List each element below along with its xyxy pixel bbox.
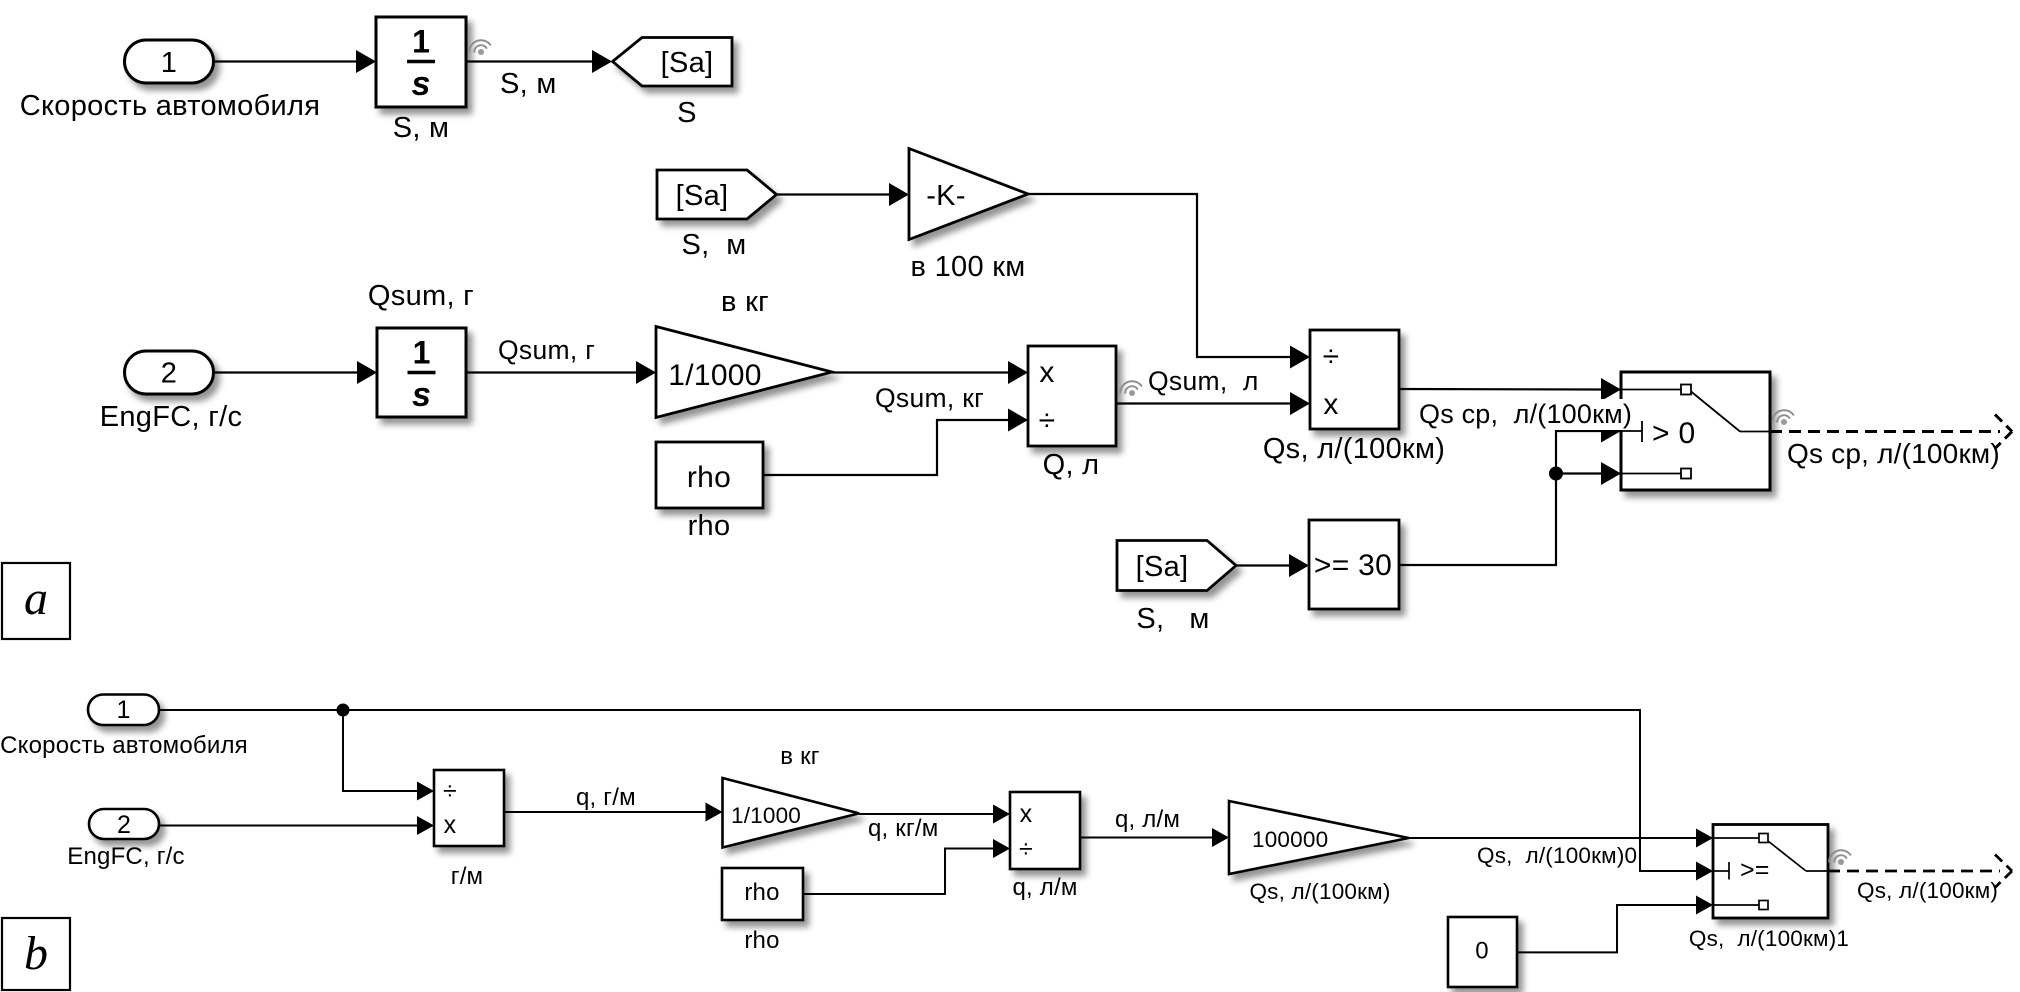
svg-text:Qs ср, л/(100км): Qs ср, л/(100км) bbox=[1787, 438, 2000, 469]
svg-text:2: 2 bbox=[161, 358, 177, 390]
LABELS-B bbox=[0, 696, 1998, 965]
switch b interior: input3 line bbox=[1713, 904, 1759, 906]
wireless badge product a bbox=[1118, 378, 1142, 396]
svg-text:> 0: > 0 bbox=[1652, 417, 1695, 450]
constant 0 bbox=[1448, 917, 1517, 987]
svg-text:Скорость автомобиля: Скорость автомобиля bbox=[20, 90, 320, 122]
svg-text:Q, л: Q, л bbox=[1043, 449, 1100, 481]
inport 2 (diagram b) bbox=[89, 809, 159, 839]
wire gain 100000 to switch input1 bbox=[1409, 837, 1697, 839]
BLOCKS-A bbox=[125, 17, 1771, 609]
wire const 0 to switch input3 bbox=[1517, 905, 1697, 952]
svg-text:>=: >= bbox=[1740, 856, 1770, 884]
switch a interior: output line bbox=[1740, 431, 1770, 433]
svg-text:x: x bbox=[1020, 800, 1033, 828]
svg-text:x: x bbox=[1323, 388, 1338, 421]
switch a interior: control line + tick bbox=[1621, 430, 1642, 432]
product block Q,l bbox=[1028, 346, 1116, 446]
svg-text:÷: ÷ bbox=[1323, 340, 1340, 373]
label frame b bbox=[2, 918, 70, 990]
arrowhead into relop bbox=[1289, 554, 1309, 577]
switch a interior: input1 line bbox=[1621, 389, 1681, 391]
gain -K- (v 100 km) bbox=[909, 149, 1028, 240]
arrowhead into product b input1 bbox=[993, 805, 1010, 824]
constant rho (a) bbox=[656, 442, 763, 508]
arrowhead into integrator2 bbox=[357, 361, 377, 384]
integrator2 fraction bar bbox=[408, 371, 436, 374]
svg-text:rho: rho bbox=[687, 461, 731, 494]
arrowhead into product input1 bbox=[1008, 361, 1028, 384]
wire inport1 to integrator1 bbox=[214, 60, 358, 62]
switch block (a) bbox=[1621, 372, 1770, 490]
wire divide to switch input1 bbox=[1399, 388, 1602, 391]
arrowhead into switch b control bbox=[1696, 862, 1713, 881]
integrator1 fraction bar bbox=[407, 60, 435, 63]
svg-text:÷: ÷ bbox=[443, 777, 457, 805]
switch a interior: port square top bbox=[1681, 385, 1691, 395]
divide block г/м bbox=[434, 770, 504, 846]
divide block Qs bbox=[1310, 330, 1399, 429]
wire relop to switch control bbox=[1399, 431, 1602, 565]
from tag [Sa] bottom bbox=[1117, 541, 1236, 591]
wire product b to gain 100000 bbox=[1080, 837, 1213, 839]
svg-text:1/1000: 1/1000 bbox=[668, 359, 762, 392]
dashed output wire switch b bbox=[1828, 855, 2012, 888]
svg-text:S, м: S, м bbox=[1136, 603, 1209, 635]
inport 1 (diagram b) bbox=[88, 695, 159, 726]
wire inport1 b long run to switch control bbox=[159, 710, 1697, 871]
svg-text:q, л/м: q, л/м bbox=[1012, 874, 1077, 901]
gain 100000 bbox=[1229, 801, 1409, 874]
switch b interior: diagonal bbox=[1768, 841, 1806, 871]
switch b interior: input1 line bbox=[1713, 837, 1759, 839]
from tag [Sa] top bbox=[657, 170, 777, 219]
inport 1 (diagram a) bbox=[125, 40, 214, 83]
arrowhead into switch b input1 bbox=[1696, 829, 1713, 848]
svg-text:x: x bbox=[444, 811, 457, 839]
svg-text:q, кг/м: q, кг/м bbox=[868, 815, 939, 842]
arrowhead into switch a input3 bbox=[1601, 462, 1621, 485]
wire integrator1 to goto [Sa] bbox=[466, 60, 593, 62]
switch a interior: input3 line bbox=[1621, 473, 1681, 475]
svg-text:S, м: S, м bbox=[393, 112, 450, 144]
integrator 1/s (Qsum) bbox=[377, 328, 466, 417]
white bg of overlapping wire label bbox=[1417, 399, 1631, 430]
arrowhead into divide b input2 bbox=[417, 816, 434, 835]
arrowhead into product b input2 bbox=[993, 839, 1010, 858]
switch b interior: port square top bbox=[1759, 834, 1768, 843]
svg-text:Qs, л/(100км)0: Qs, л/(100км)0 bbox=[1477, 843, 1637, 868]
arrowhead into gain -K- bbox=[889, 183, 909, 206]
svg-text:1: 1 bbox=[161, 47, 177, 79]
svg-text:q, г/м: q, г/м bbox=[576, 784, 636, 811]
inport 2 (diagram a) bbox=[125, 351, 214, 394]
wireless badge switch b bbox=[1827, 847, 1851, 865]
svg-text:s: s bbox=[412, 376, 431, 414]
svg-text:г/м: г/м bbox=[451, 863, 484, 890]
wire product to divide input2 bbox=[1116, 402, 1291, 404]
junction dot a bbox=[1549, 467, 1563, 481]
svg-text:b: b bbox=[24, 927, 48, 980]
svg-text:Qsum, г: Qsum, г bbox=[498, 335, 595, 365]
svg-text:Qs ср, л/(100км): Qs ср, л/(100км) bbox=[1419, 399, 1632, 429]
svg-text:Qsum, л: Qsum, л bbox=[1148, 366, 1259, 396]
svg-text:в кг: в кг bbox=[780, 743, 820, 770]
svg-text:[Sa]: [Sa] bbox=[1136, 551, 1189, 583]
svg-text:Qs, л/(100км): Qs, л/(100км) bbox=[1249, 879, 1390, 904]
svg-text:S: S bbox=[677, 97, 697, 129]
WIRES-A bbox=[214, 62, 1603, 566]
svg-text:q, л/м: q, л/м bbox=[1115, 806, 1180, 833]
gain 1/1000 (v kg) bbox=[656, 327, 832, 418]
svg-text:rho: rho bbox=[688, 510, 731, 542]
svg-text:Qs, л/(100км)1: Qs, л/(100км)1 bbox=[1689, 926, 1849, 951]
switch b interior: output line bbox=[1806, 870, 1828, 872]
svg-text:[Sa]: [Sa] bbox=[676, 180, 729, 212]
arrowhead into integrator1 bbox=[356, 50, 376, 73]
arrowhead into gain 100000 bbox=[1212, 828, 1229, 847]
arrowhead into switch a control bbox=[1601, 420, 1621, 443]
svg-text:rho: rho bbox=[744, 879, 779, 906]
gain 1/1000 (b) bbox=[723, 778, 860, 848]
switch a interior: port square bottom bbox=[1681, 469, 1691, 479]
svg-text:100000: 100000 bbox=[1252, 827, 1328, 852]
arrowhead into goto [Sa] bbox=[592, 50, 612, 73]
dashed output wire switch a bbox=[1770, 415, 2012, 449]
arrowhead into switch a input1 bbox=[1601, 378, 1621, 401]
svg-text:x: x bbox=[1039, 356, 1054, 389]
svg-text:S, м: S, м bbox=[500, 68, 557, 100]
svg-text:Qsum, г: Qsum, г bbox=[368, 280, 474, 312]
wire divide b to gain 1/1000 b bbox=[504, 811, 706, 813]
arrowhead into gain 1/1000 b bbox=[706, 803, 723, 822]
wire rho b to product input2 bbox=[803, 849, 994, 895]
svg-text:1: 1 bbox=[412, 24, 430, 60]
arrowhead into divide b input1 bbox=[417, 782, 434, 801]
junction dot b bbox=[337, 704, 350, 717]
svg-text:в кг: в кг bbox=[721, 286, 769, 318]
svg-text:1/1000: 1/1000 bbox=[731, 803, 801, 828]
WIRES-B bbox=[159, 710, 1697, 952]
wire gain 1/1000 to product input1 bbox=[832, 371, 1009, 373]
svg-text:÷: ÷ bbox=[1039, 404, 1056, 437]
svg-text:>= 30: >= 30 bbox=[1314, 549, 1392, 582]
arrowhead into divide input1 bbox=[1290, 346, 1310, 369]
wire integrator2 to gain 1/1000 bbox=[466, 371, 637, 373]
BLOCKS-B bbox=[88, 695, 1828, 988]
svg-text:S, м: S, м bbox=[682, 229, 747, 261]
constant rho (b) bbox=[722, 868, 803, 920]
svg-text:EngFC, г/с: EngFC, г/с bbox=[100, 401, 243, 433]
label frame a bbox=[2, 563, 70, 639]
svg-text:Скорость автомобиля: Скорость автомобиля bbox=[0, 732, 248, 759]
wireless badge switch a bbox=[1770, 407, 1794, 425]
wire rho a to product input2 bbox=[763, 420, 1009, 475]
svg-text:rho: rho bbox=[744, 927, 779, 954]
goto tag [Sa] bbox=[613, 38, 733, 87]
wire branch junction down to divide input1 bbox=[343, 710, 418, 791]
svg-text:Qs, л/(100км): Qs, л/(100км) bbox=[1263, 433, 1445, 465]
svg-text:0: 0 bbox=[1475, 938, 1489, 965]
svg-text:Qsum, кг: Qsum, кг bbox=[875, 383, 984, 413]
arrowhead into divide input2 bbox=[1290, 392, 1310, 415]
svg-text:[Sa]: [Sa] bbox=[661, 47, 714, 79]
svg-text:2: 2 bbox=[117, 811, 131, 839]
wireless badge integrator1 bbox=[467, 37, 491, 55]
svg-text:s: s bbox=[412, 65, 431, 103]
arrowhead into switch b input3 bbox=[1696, 896, 1713, 915]
wire inport2 b to divide input2 bbox=[159, 825, 418, 827]
arrowhead into product input2 bbox=[1008, 409, 1028, 432]
wire from [Sa] bottom to relop bbox=[1236, 564, 1290, 566]
switch a interior: diagonal bbox=[1691, 392, 1740, 432]
svg-text:a: a bbox=[24, 572, 48, 625]
arrowhead into gain 1/1000 bbox=[636, 361, 656, 384]
wire gain b to product input1 bbox=[859, 813, 994, 815]
switch b interior: port square bottom bbox=[1759, 901, 1768, 910]
wire from [Sa] top to gain -K- bbox=[777, 193, 891, 195]
svg-text:-K-: -K- bbox=[926, 180, 966, 212]
wire inport2 to integrator2 bbox=[214, 371, 359, 373]
integrator 1/s (S, m) bbox=[376, 17, 466, 107]
wire branch junction to switch input3 bbox=[1556, 472, 1602, 474]
relational operator >= 30 bbox=[1309, 520, 1399, 609]
svg-text:в 100 км: в 100 км bbox=[911, 251, 1026, 283]
product block q, л/м bbox=[1010, 792, 1080, 869]
svg-text:÷: ÷ bbox=[1019, 835, 1033, 863]
LABELS-A bbox=[20, 47, 2000, 635]
wire gain -K- to divide input1 bbox=[1028, 194, 1291, 357]
svg-text:1: 1 bbox=[116, 696, 130, 724]
svg-text:EngFC, г/с: EngFC, г/с bbox=[67, 843, 184, 870]
switch b interior: control line + tick bbox=[1713, 870, 1729, 872]
svg-text:Qs, л/(100км): Qs, л/(100км) bbox=[1857, 878, 1998, 903]
switch block (b) bbox=[1713, 825, 1828, 919]
svg-text:1: 1 bbox=[413, 335, 431, 371]
